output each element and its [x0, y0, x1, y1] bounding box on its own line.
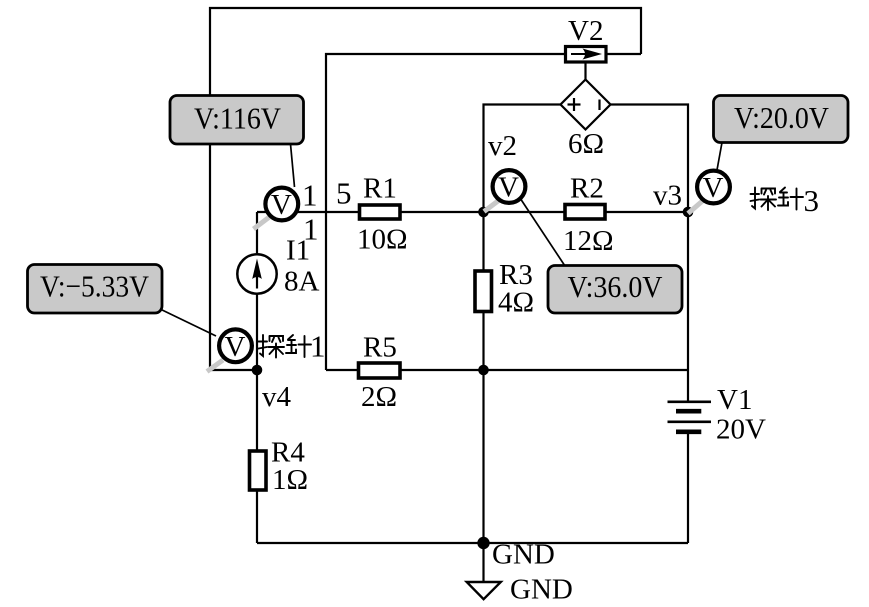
dependent source diamond: [561, 80, 611, 161]
wire diamond right to right vertical: [611, 105, 688, 402]
node v4 dot: [252, 365, 292, 413]
svg-text:2Ω: 2Ω: [361, 381, 397, 413]
current source I1: [237, 235, 319, 298]
svg-text:3: 3: [804, 183, 820, 218]
label box V:-5.33V: [28, 265, 163, 314]
svg-text:GND: GND: [510, 574, 573, 606]
svg-text:V:−5.33V: V:−5.33V: [40, 269, 150, 304]
leader line to -5.33V label: [158, 308, 216, 336]
resistor R4: [250, 437, 309, 497]
voltmeter probe 3: [697, 171, 730, 204]
wire center vertical: [482, 212, 484, 543]
svg-text:V2: V2: [568, 15, 603, 47]
wire diamond left to node v2: [484, 105, 561, 213]
probe label tanzhen1: [259, 329, 326, 364]
battery V1: [668, 384, 767, 446]
leader line to 116V label: [291, 144, 295, 187]
wire main middle rail: [257, 211, 688, 213]
svg-text:4Ω: 4Ω: [498, 287, 534, 319]
svg-text:R2: R2: [570, 173, 604, 205]
label box V:36.0V: [548, 266, 682, 314]
probe needle v2: [484, 200, 500, 212]
probe needle top: [254, 214, 275, 230]
svg-text:1: 1: [310, 329, 326, 364]
wire probe stub to v4: [209, 369, 257, 371]
svg-text:GND: GND: [492, 539, 555, 571]
probe needle 1: [207, 360, 223, 372]
svg-text:V:20.0V: V:20.0V: [734, 100, 830, 135]
leader line to 36.0V label: [521, 200, 565, 267]
svg-text:1: 1: [302, 178, 318, 213]
probe needle v3: [688, 201, 703, 214]
svg-text:5: 5: [336, 176, 352, 211]
svg-text:10Ω: 10Ω: [357, 224, 408, 256]
wire diamond top stub: [584, 62, 586, 80]
wire left stub down to I1: [256, 212, 258, 253]
voltmeter probe top: [265, 188, 298, 221]
svg-text:v2: v2: [488, 130, 517, 162]
svg-text:V:36.0V: V:36.0V: [568, 269, 664, 304]
ground: [467, 574, 573, 606]
svg-text:v4: v4: [262, 381, 292, 413]
svg-text:V: V: [498, 172, 519, 204]
node R5 junction dot: [478, 365, 489, 376]
svg-text:v3: v3: [653, 180, 682, 212]
wire V2 box right to corner: [606, 53, 641, 55]
wire ground stub: [482, 543, 484, 582]
svg-text:20V: 20V: [716, 414, 766, 446]
svg-text:1: 1: [303, 212, 319, 247]
wire second rail left of V2 box: [326, 54, 565, 370]
svg-text:V: V: [225, 331, 246, 363]
svg-text:V1: V1: [717, 384, 752, 416]
node v2 dot: [478, 130, 517, 217]
svg-text:12Ω: 12Ω: [563, 225, 614, 257]
svg-text:6Ω: 6Ω: [568, 128, 604, 160]
wire battery bottom to rail: [687, 433, 689, 543]
svg-text:V:116V: V:116V: [194, 101, 282, 136]
probe label tanzhen3: [751, 183, 820, 218]
label box V:20.0V: [714, 96, 849, 143]
wire bottom rail: [257, 542, 688, 544]
resistor R3: [475, 259, 534, 319]
wire top rail: [210, 8, 641, 370]
wire I1 to node v4: [256, 294, 258, 370]
wire R5 rail: [326, 369, 688, 371]
node v3 dot: [653, 180, 693, 218]
svg-text:V: V: [703, 172, 724, 204]
voltmeter probe v2: [493, 170, 526, 203]
svg-text:V: V: [271, 189, 292, 221]
resistor R2: [563, 173, 614, 258]
svg-text:1Ω: 1Ω: [272, 464, 308, 496]
voltmeter probe 1: [219, 329, 252, 362]
svg-text:8A: 8A: [284, 266, 320, 298]
wire v4 down through R4 to bottom rail: [256, 370, 258, 543]
node GND dot: [477, 537, 555, 571]
resistor R5: [359, 332, 401, 414]
svg-text:R1: R1: [363, 173, 397, 205]
label box V:116V: [170, 96, 304, 145]
svg-text:R5: R5: [363, 332, 397, 364]
leader line to 20.0V label: [717, 143, 722, 171]
resistor R1: [357, 173, 408, 256]
current sense box V2: [566, 15, 607, 62]
